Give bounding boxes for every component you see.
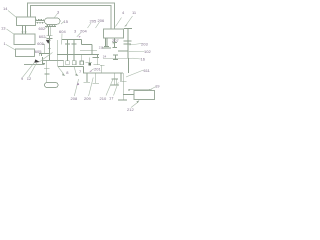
svg-text:208: 208	[71, 96, 78, 101]
svg-text:207: 207	[112, 38, 119, 43]
svg-text:204: 204	[80, 29, 87, 34]
svg-text:8: 8	[66, 70, 69, 75]
svg-text:210: 210	[100, 96, 107, 101]
svg-text:602: 602	[39, 34, 46, 39]
svg-text:205: 205	[90, 19, 97, 24]
svg-text:203: 203	[141, 42, 148, 47]
svg-text:7: 7	[79, 69, 82, 74]
svg-text:13: 13	[1, 26, 6, 31]
svg-text:17: 17	[109, 96, 114, 101]
svg-text:24: 24	[103, 55, 107, 59]
svg-text:605: 605	[35, 49, 42, 54]
svg-text:212: 212	[127, 107, 134, 112]
svg-text:209: 209	[84, 96, 91, 101]
svg-text:201: 201	[94, 67, 101, 72]
svg-text:211: 211	[99, 46, 104, 50]
svg-text:19: 19	[155, 84, 160, 89]
svg-text:15: 15	[64, 19, 69, 24]
svg-text:604: 604	[59, 29, 66, 34]
svg-text:16: 16	[141, 56, 146, 61]
svg-text:102: 102	[144, 49, 151, 54]
svg-text:4: 4	[122, 10, 125, 15]
svg-text:611: 611	[144, 68, 151, 73]
svg-text:3: 3	[57, 10, 60, 15]
svg-text:602: 602	[39, 26, 46, 31]
svg-text:1: 1	[4, 41, 7, 46]
svg-text:12: 12	[27, 76, 32, 81]
svg-text:601: 601	[37, 41, 44, 46]
svg-text:3: 3	[74, 29, 77, 34]
svg-text:11: 11	[132, 10, 137, 15]
svg-text:9: 9	[21, 76, 24, 81]
svg-text:14: 14	[3, 6, 8, 11]
svg-text:206: 206	[98, 18, 105, 23]
